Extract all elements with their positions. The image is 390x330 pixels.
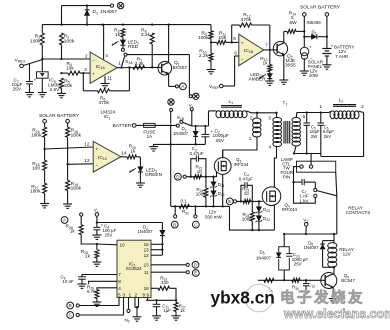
diode D3 1N4007	[195, 126, 197, 131]
zener D21	[213, 177, 215, 182]
capacitor C8 100uF 25V	[96, 223, 98, 228]
svg-text:8: 8	[143, 292, 146, 297]
svg-text:3: 3	[84, 67, 87, 73]
svg-text:+: +	[96, 147, 99, 152]
terminal C pair	[194, 206, 196, 214]
resistor R22 100k	[205, 177, 207, 188]
svg-text:16: 16	[144, 286, 150, 291]
svg-text:GREEN: GREEN	[145, 172, 163, 178]
svg-text:11: 11	[144, 270, 149, 275]
terminal X top	[110, 4, 113, 7]
lamp box 7W four-pin	[297, 161, 336, 172]
wire gate drive Q3	[186, 176, 213, 178]
capacitor C1 10uF 25V	[29, 64, 31, 82]
snubber loop D5 C10	[283, 234, 285, 247]
wire V1 to D4 and IC	[97, 222, 162, 224]
wire pin 11 to E terminal	[151, 271, 186, 273]
svg-text:B: B	[69, 303, 72, 308]
svg-text:BC557: BC557	[173, 65, 188, 71]
capacitor C2 1000uF 25V	[204, 126, 206, 134]
inductor L2	[329, 111, 331, 112]
svg-text:5W: 5W	[290, 20, 298, 26]
svg-text:+: +	[241, 41, 244, 46]
diode D5 1N4007	[279, 247, 290, 270]
svg-text:1A: 1A	[147, 134, 153, 139]
resistor R8 3.3k	[150, 33, 154, 44]
svg-text:12V: 12V	[343, 252, 351, 257]
svg-text:2.2k: 2.2k	[199, 53, 209, 59]
svg-text:3: 3	[123, 292, 126, 297]
resistor R33 330	[151, 287, 158, 289]
svg-text:25V: 25V	[13, 87, 22, 93]
diode D6 1N4007	[322, 241, 324, 245]
terminal E right gate	[226, 198, 233, 205]
svg-text:−: −	[241, 58, 244, 63]
svg-text:2: 2	[135, 292, 138, 297]
resistor R24 100k	[251, 201, 253, 212]
svg-text:100k: 100k	[196, 191, 207, 196]
wire op-amp pin2 input	[42, 58, 90, 60]
svg-text:IN5408: IN5408	[307, 20, 322, 25]
pin 11 ground stub	[104, 76, 106, 83]
wire lamp right to relay contact	[336, 172, 337, 234]
capacitor C4 0.47uF	[241, 185, 245, 201]
wire loop bottom to Q5 base	[283, 270, 285, 280]
svg-text:13: 13	[144, 248, 150, 253]
svg-text:1: 1	[118, 60, 121, 66]
svg-text:CONTACTS: CONTACTS	[346, 210, 370, 215]
svg-text:100: 100	[32, 166, 40, 172]
svg-text:4: 4	[269, 144, 272, 150]
wire pin 6 to Vref	[235, 55, 239, 57]
svg-text:10: 10	[120, 243, 126, 248]
capacitor C7 1nF 1kV with contact loop	[294, 181, 303, 183]
svg-text:1k: 1k	[85, 253, 91, 259]
resistor R5 20k	[60, 78, 64, 88]
wire pin 5 to B terminal	[79, 298, 119, 306]
svg-text:4: 4	[105, 53, 108, 59]
resistor R19 180k	[67, 164, 69, 180]
svg-text:BC547: BC547	[341, 278, 355, 283]
svg-text:PIN: PIN	[283, 175, 290, 180]
solar panel symbol	[300, 47, 309, 56]
capacitor C12	[305, 280, 307, 283]
op-amp IC1B LM324	[239, 34, 264, 65]
terminal V+ after switch	[191, 111, 193, 126]
svg-text:13: 13	[84, 158, 90, 164]
wire ground rail with ground	[153, 143, 205, 145]
capacitor C3 0.47uF	[191, 159, 196, 177]
svg-text:1 kV: 1 kV	[300, 199, 309, 204]
resistor R7 3.3k	[133, 65, 145, 69]
svg-text:5: 5	[118, 292, 121, 297]
diode D2 1N5408	[304, 36, 311, 38]
svg-text:2: 2	[361, 104, 364, 109]
wire secondary bottom node	[294, 153, 321, 155]
wire rail V+ top	[42, 24, 211, 26]
svg-text:6.7k: 6.7k	[87, 289, 96, 294]
resistor R14 5 5W	[284, 30, 287, 32]
T1 winding 3-4	[276, 113, 278, 118]
svg-text:3.3k: 3.3k	[135, 61, 145, 67]
IC5 LM385-2.5V	[41, 59, 43, 72]
feedback resistor R6 470k	[82, 73, 84, 91]
wire gate drive Q4	[237, 200, 259, 202]
fuse 1A	[136, 124, 144, 126]
svg-text:0.1: 0.1	[181, 199, 188, 204]
svg-text:1N4007: 1N4007	[138, 229, 154, 234]
svg-text:E: E	[228, 199, 231, 204]
svg-text:10: 10	[244, 191, 250, 196]
relay coil 12V with D6	[333, 234, 335, 241]
svg-text:15: 15	[144, 242, 150, 247]
svg-text:3055: 3055	[285, 63, 296, 69]
wire S1A to X terminal	[127, 54, 189, 56]
svg-text:BATTERY: BATTERY	[113, 123, 136, 129]
resistor R20 1k	[121, 156, 127, 158]
terminal X mid	[193, 93, 199, 99]
svg-text:9: 9	[147, 292, 150, 297]
svg-text:10k: 10k	[219, 35, 227, 41]
svg-text:+: +	[92, 72, 95, 77]
capacitor C9 10nF	[78, 276, 86, 278]
resistor R26 6.7k	[97, 288, 117, 290]
resistor R32 0.1 current sense	[179, 204, 189, 208]
svg-text:6: 6	[303, 114, 306, 119]
svg-text:100k: 100k	[242, 217, 253, 222]
wire	[61, 6, 63, 25]
terminal solar panel +	[303, 13, 307, 17]
wire solar column	[303, 16, 305, 48]
svg-text:1N4007: 1N4007	[304, 245, 320, 250]
svg-text:B: B	[173, 222, 176, 227]
svg-text:1μF: 1μF	[163, 308, 171, 313]
wire L2 right down to lamp	[321, 113, 364, 157]
terminal B pair	[174, 206, 176, 214]
capacitor C10 1000uF 25V	[288, 253, 292, 258]
resistor R13 1k	[269, 50, 271, 65]
wire pin 8 stub	[89, 281, 118, 284]
inductor L1	[208, 111, 210, 126]
svg-text:25V: 25V	[294, 262, 302, 267]
svg-text:4: 4	[118, 286, 121, 291]
svg-text:2kV: 2kV	[324, 134, 332, 139]
switch S1A	[122, 56, 125, 67]
svg-text:www.elecfans.com: www.elecfans.com	[283, 307, 390, 321]
wire sense rail	[171, 205, 230, 207]
svg-text:180k: 180k	[31, 132, 42, 138]
svg-text:2.5V: 2.5V	[50, 87, 61, 93]
svg-text:SG3524: SG3524	[126, 266, 142, 271]
svg-text:1: 1	[320, 104, 323, 109]
svg-text:RED: RED	[128, 44, 139, 50]
svg-text:3.3k: 3.3k	[141, 32, 151, 38]
svg-text:1k: 1k	[130, 148, 136, 154]
wire secondary top to L2	[297, 112, 330, 114]
wire battery to switch	[155, 124, 176, 126]
pin 4 V+ stub	[103, 25, 105, 60]
zener D24	[256, 216, 261, 221]
op-amp IC1A LM324	[90, 52, 117, 83]
svg-text:SOLAR BATTERY: SOLAR BATTERY	[39, 113, 80, 119]
relay contact arm	[317, 191, 337, 196]
resistor R29 120	[264, 278, 274, 282]
svg-text:1k: 1k	[180, 308, 185, 313]
resistor R30 1k	[292, 278, 300, 282]
resistor R9 100k	[210, 25, 212, 31]
svg-text:10: 10	[197, 169, 203, 174]
transistor Q1 BC557	[158, 61, 172, 75]
terminal D left	[175, 173, 182, 180]
svg-text:1: 1	[129, 292, 132, 297]
resistor R10 2.2k	[209, 53, 213, 61]
transistor Q5 BC547	[333, 267, 335, 274]
capacitor C11 1uF	[156, 300, 158, 304]
diode D4 1N4007	[161, 223, 163, 231]
terminal solar batt left B	[66, 119, 70, 123]
op-amp IC1C LM324	[93, 141, 121, 172]
watermark circle	[245, 284, 273, 312]
wire pin 12 input	[45, 147, 94, 149]
svg-text:470k: 470k	[241, 17, 252, 23]
svg-text:IRFZ44: IRFZ44	[234, 162, 250, 167]
svg-text:10 nF: 10 nF	[63, 279, 75, 284]
resistor R17 180k	[43, 183, 47, 193]
svg-text:500 mW: 500 mW	[205, 214, 223, 219]
MOSFET Q3 IRFZ44	[214, 172, 217, 177]
wire Q5 base network	[258, 279, 321, 281]
resistor R27 1k	[175, 300, 177, 302]
battery B1 12V 7AHR	[326, 16, 328, 48]
resistor R18 100	[44, 149, 46, 160]
wire T1 primary top	[251, 112, 277, 114]
svg-text:1k: 1k	[70, 228, 76, 234]
svg-text:100k: 100k	[30, 38, 41, 44]
wire rail corner to Q4 rail	[230, 206, 275, 230]
svg-text:E: E	[194, 271, 197, 276]
wire IC1A output	[117, 66, 158, 68]
wire rail after S1B	[192, 125, 209, 127]
svg-text:−: −	[92, 58, 95, 63]
svg-text:25V: 25V	[216, 138, 225, 144]
wire top X net	[62, 5, 111, 7]
resistor R23 10	[243, 199, 250, 203]
svg-text:180k: 180k	[71, 132, 82, 138]
svg-text:SOLAR BATTERY: SOLAR BATTERY	[300, 4, 341, 10]
svg-text:0.47μF: 0.47μF	[239, 176, 253, 181]
resistor R21 10	[194, 175, 202, 179]
svg-text:13: 13	[144, 263, 150, 268]
svg-text:1N4007: 1N4007	[173, 131, 189, 136]
svg-text:1N4007: 1N4007	[256, 255, 272, 260]
resistor R28 1k	[80, 213, 83, 216]
svg-text:12: 12	[144, 253, 150, 258]
wire IC1B output	[264, 49, 273, 51]
svg-text:−: −	[96, 163, 99, 168]
wire pin 7 to C9	[82, 275, 117, 277]
IC2 SG3524	[117, 240, 151, 297]
relay coil	[333, 241, 335, 244]
LED1 RED	[122, 45, 124, 48]
svg-text:20k: 20k	[64, 83, 72, 89]
resistor R1 100k	[41, 25, 43, 33]
svg-text:11: 11	[107, 76, 112, 82]
LED3 GREEN	[139, 157, 141, 167]
wire lamp left pin to C7	[294, 167, 300, 183]
resistor R4 10k	[60, 72, 62, 74]
svg-text:1k: 1k	[263, 60, 269, 66]
svg-text:12: 12	[84, 141, 90, 147]
diode D1 1N4007	[86, 6, 88, 10]
svg-text:2W: 2W	[311, 134, 318, 139]
wire pin 13 to D terminal	[151, 264, 186, 266]
svg-text:180k: 180k	[71, 186, 82, 192]
terminal solar batt left A	[43, 119, 47, 123]
resistor R15 180k	[44, 123, 46, 127]
svg-text:7: 7	[118, 272, 121, 277]
svg-text:5: 5	[233, 36, 236, 42]
capacitor C6 6.8uF 2kV	[320, 113, 322, 123]
transistor Q2 MJE3055	[273, 42, 287, 56]
svg-text:ybx8.cn: ybx8.cn	[211, 288, 275, 308]
T1 winding 1-2	[256, 113, 258, 119]
capacitor C5 10uF	[306, 113, 308, 123]
wire pin 1 NC	[128, 298, 130, 310]
svg-text:10k: 10k	[66, 65, 74, 71]
svg-text:7 AHR: 7 AHR	[335, 54, 349, 59]
resistor R11 10k	[211, 41, 217, 43]
svg-text:180k: 180k	[30, 189, 41, 195]
LED2 AMBER	[269, 72, 271, 74]
svg-text:10W: 10W	[309, 73, 319, 78]
svg-text:1k: 1k	[115, 32, 121, 38]
wire pins 8 9 bottom	[147, 298, 149, 301]
wire pin 10 to R25	[97, 243, 117, 246]
wire pins 15 13 12 stubs	[151, 243, 162, 245]
svg-text:14: 14	[121, 150, 127, 156]
wire long vertical battery to sense rail	[170, 125, 172, 206]
svg-text:330: 330	[161, 280, 169, 285]
svg-text:IRFZ44: IRFZ44	[282, 207, 298, 212]
svg-text:100k: 100k	[198, 35, 209, 41]
terminal battery in	[132, 124, 136, 128]
resistor R2 100k	[60, 33, 64, 45]
wire pin 2 ground	[134, 298, 136, 308]
svg-text:470k: 470k	[99, 100, 110, 106]
zener D23	[258, 201, 260, 206]
svg-text:电子发烧友: 电子发烧友	[280, 289, 365, 307]
T1 core	[283, 121, 285, 144]
resistor R25 1k	[96, 244, 98, 250]
svg-text:100k: 100k	[64, 38, 75, 44]
resistor R12 470k feedback	[231, 25, 233, 42]
switch S1B	[176, 124, 179, 127]
T1 secondary winding	[292, 118, 301, 123]
wire pin 13 input	[68, 163, 94, 166]
MOSFET Q4 IRFZ44	[262, 187, 281, 206]
svg-text:+: +	[309, 45, 312, 50]
svg-text:2: 2	[85, 54, 88, 60]
resistor R16 180k	[67, 123, 69, 127]
svg-text:8: 8	[118, 279, 121, 284]
svg-text:6: 6	[234, 51, 237, 57]
terminal battery +	[325, 13, 329, 17]
svg-text:0.47μF: 0.47μF	[190, 151, 204, 156]
zener D22	[211, 191, 216, 196]
terminal A lower left	[61, 217, 68, 224]
svg-text:AMBER: AMBER	[249, 77, 267, 83]
terminal A right of Q1	[175, 85, 178, 88]
wire relay rail	[284, 233, 337, 235]
svg-text:7: 7	[265, 42, 268, 48]
terminal X pair on battery net	[170, 111, 172, 123]
svg-text:2: 2	[250, 115, 253, 121]
svg-text:25V: 25V	[105, 233, 113, 238]
svg-text:1: 1	[249, 136, 252, 142]
wire pin 3 to C terminal	[79, 298, 123, 316]
resistor R3 1k	[121, 29, 125, 38]
svg-text:3: 3	[268, 115, 271, 121]
